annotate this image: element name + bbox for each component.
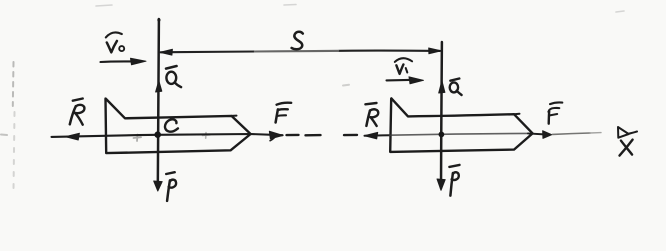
left vertical axis (Q-P line) — [158, 19, 159, 188]
label F left overbar — [277, 103, 292, 105]
left body nose overshoot — [232, 115, 237, 117]
faint smudge above dashed axis — [343, 84, 349, 87]
label V0 overbar — [106, 32, 122, 37]
label V1 subscript 1 — [406, 68, 408, 73]
label Q left glyph — [166, 72, 176, 84]
X axis open arrowhead — [618, 127, 629, 138]
label c — [165, 119, 178, 131]
dashed axis segment 2 — [306, 134, 321, 137]
vector V0 arrowhead — [131, 58, 147, 65]
R right arrow shaft — [365, 134, 390, 137]
label F right overbar — [550, 102, 562, 104]
faint axis tail after F right — [553, 133, 591, 134]
vector V1 arrowhead — [409, 77, 424, 84]
label P right glyph (rho) — [450, 173, 453, 196]
label F right glyph — [548, 108, 559, 112]
label V1 overbar — [395, 58, 412, 62]
smudge mark inside left body 2 — [203, 133, 211, 139]
S dimension line — [161, 51, 441, 53]
label Q left overbar — [166, 66, 177, 69]
faint top-edge speckles — [96, 5, 624, 13]
arrowhead Q up (right) — [439, 81, 445, 93]
label V0 V glyph — [107, 41, 117, 52]
label V0 subscript o — [119, 46, 124, 51]
arrowhead R right — [364, 132, 378, 139]
dashed axis segment 1 — [287, 134, 299, 137]
faded patch of S line — [255, 50, 338, 53]
label X glyph — [621, 141, 632, 155]
right body nose overshoot — [514, 113, 520, 116]
label R right glyph — [366, 111, 370, 126]
axis through right body (fainter) — [390, 133, 529, 135]
label S — [292, 32, 303, 49]
label R right overbar — [365, 103, 376, 104]
centroid dot (right) — [439, 132, 445, 138]
S arrowhead left — [160, 49, 173, 55]
arrowhead Q up (left) — [156, 81, 162, 92]
arrowhead R left — [65, 133, 79, 140]
arrowhead P down (left) — [154, 181, 163, 191]
label P left glyph (rho) — [167, 180, 170, 201]
arrowhead P down (right) — [437, 179, 445, 190]
main horizontal axis left segment (R to F tip) — [52, 134, 283, 137]
vector V0 arrow shaft — [101, 60, 133, 63]
label R left overbar — [73, 99, 83, 101]
axis right tip to F arrow — [528, 133, 546, 134]
label R left glyph — [70, 106, 76, 124]
X axis stub line — [628, 132, 637, 134]
left body outline — [106, 99, 251, 154]
dashed axis segment 3 — [344, 134, 357, 137]
right body outline — [390, 98, 532, 151]
scan noise left margin — [1, 62, 15, 190]
label P right overbar — [449, 165, 459, 167]
label Q right glyph — [450, 82, 458, 92]
arrowhead F right — [543, 131, 552, 139]
S arrowhead right — [429, 48, 442, 54]
right vertical axis (Q-P line) — [440, 42, 443, 188]
label P left overbar — [166, 172, 175, 174]
label V1 V glyph — [396, 65, 403, 74]
centroid dot c (left) — [154, 131, 161, 138]
label Q right overbar — [450, 79, 459, 81]
F left arrow flick below — [270, 138, 274, 141]
smudge mark inside left body — [134, 135, 142, 142]
vector V1 arrow shaft — [387, 79, 410, 82]
arrowhead F left — [269, 131, 283, 139]
label F left glyph — [276, 109, 278, 122]
